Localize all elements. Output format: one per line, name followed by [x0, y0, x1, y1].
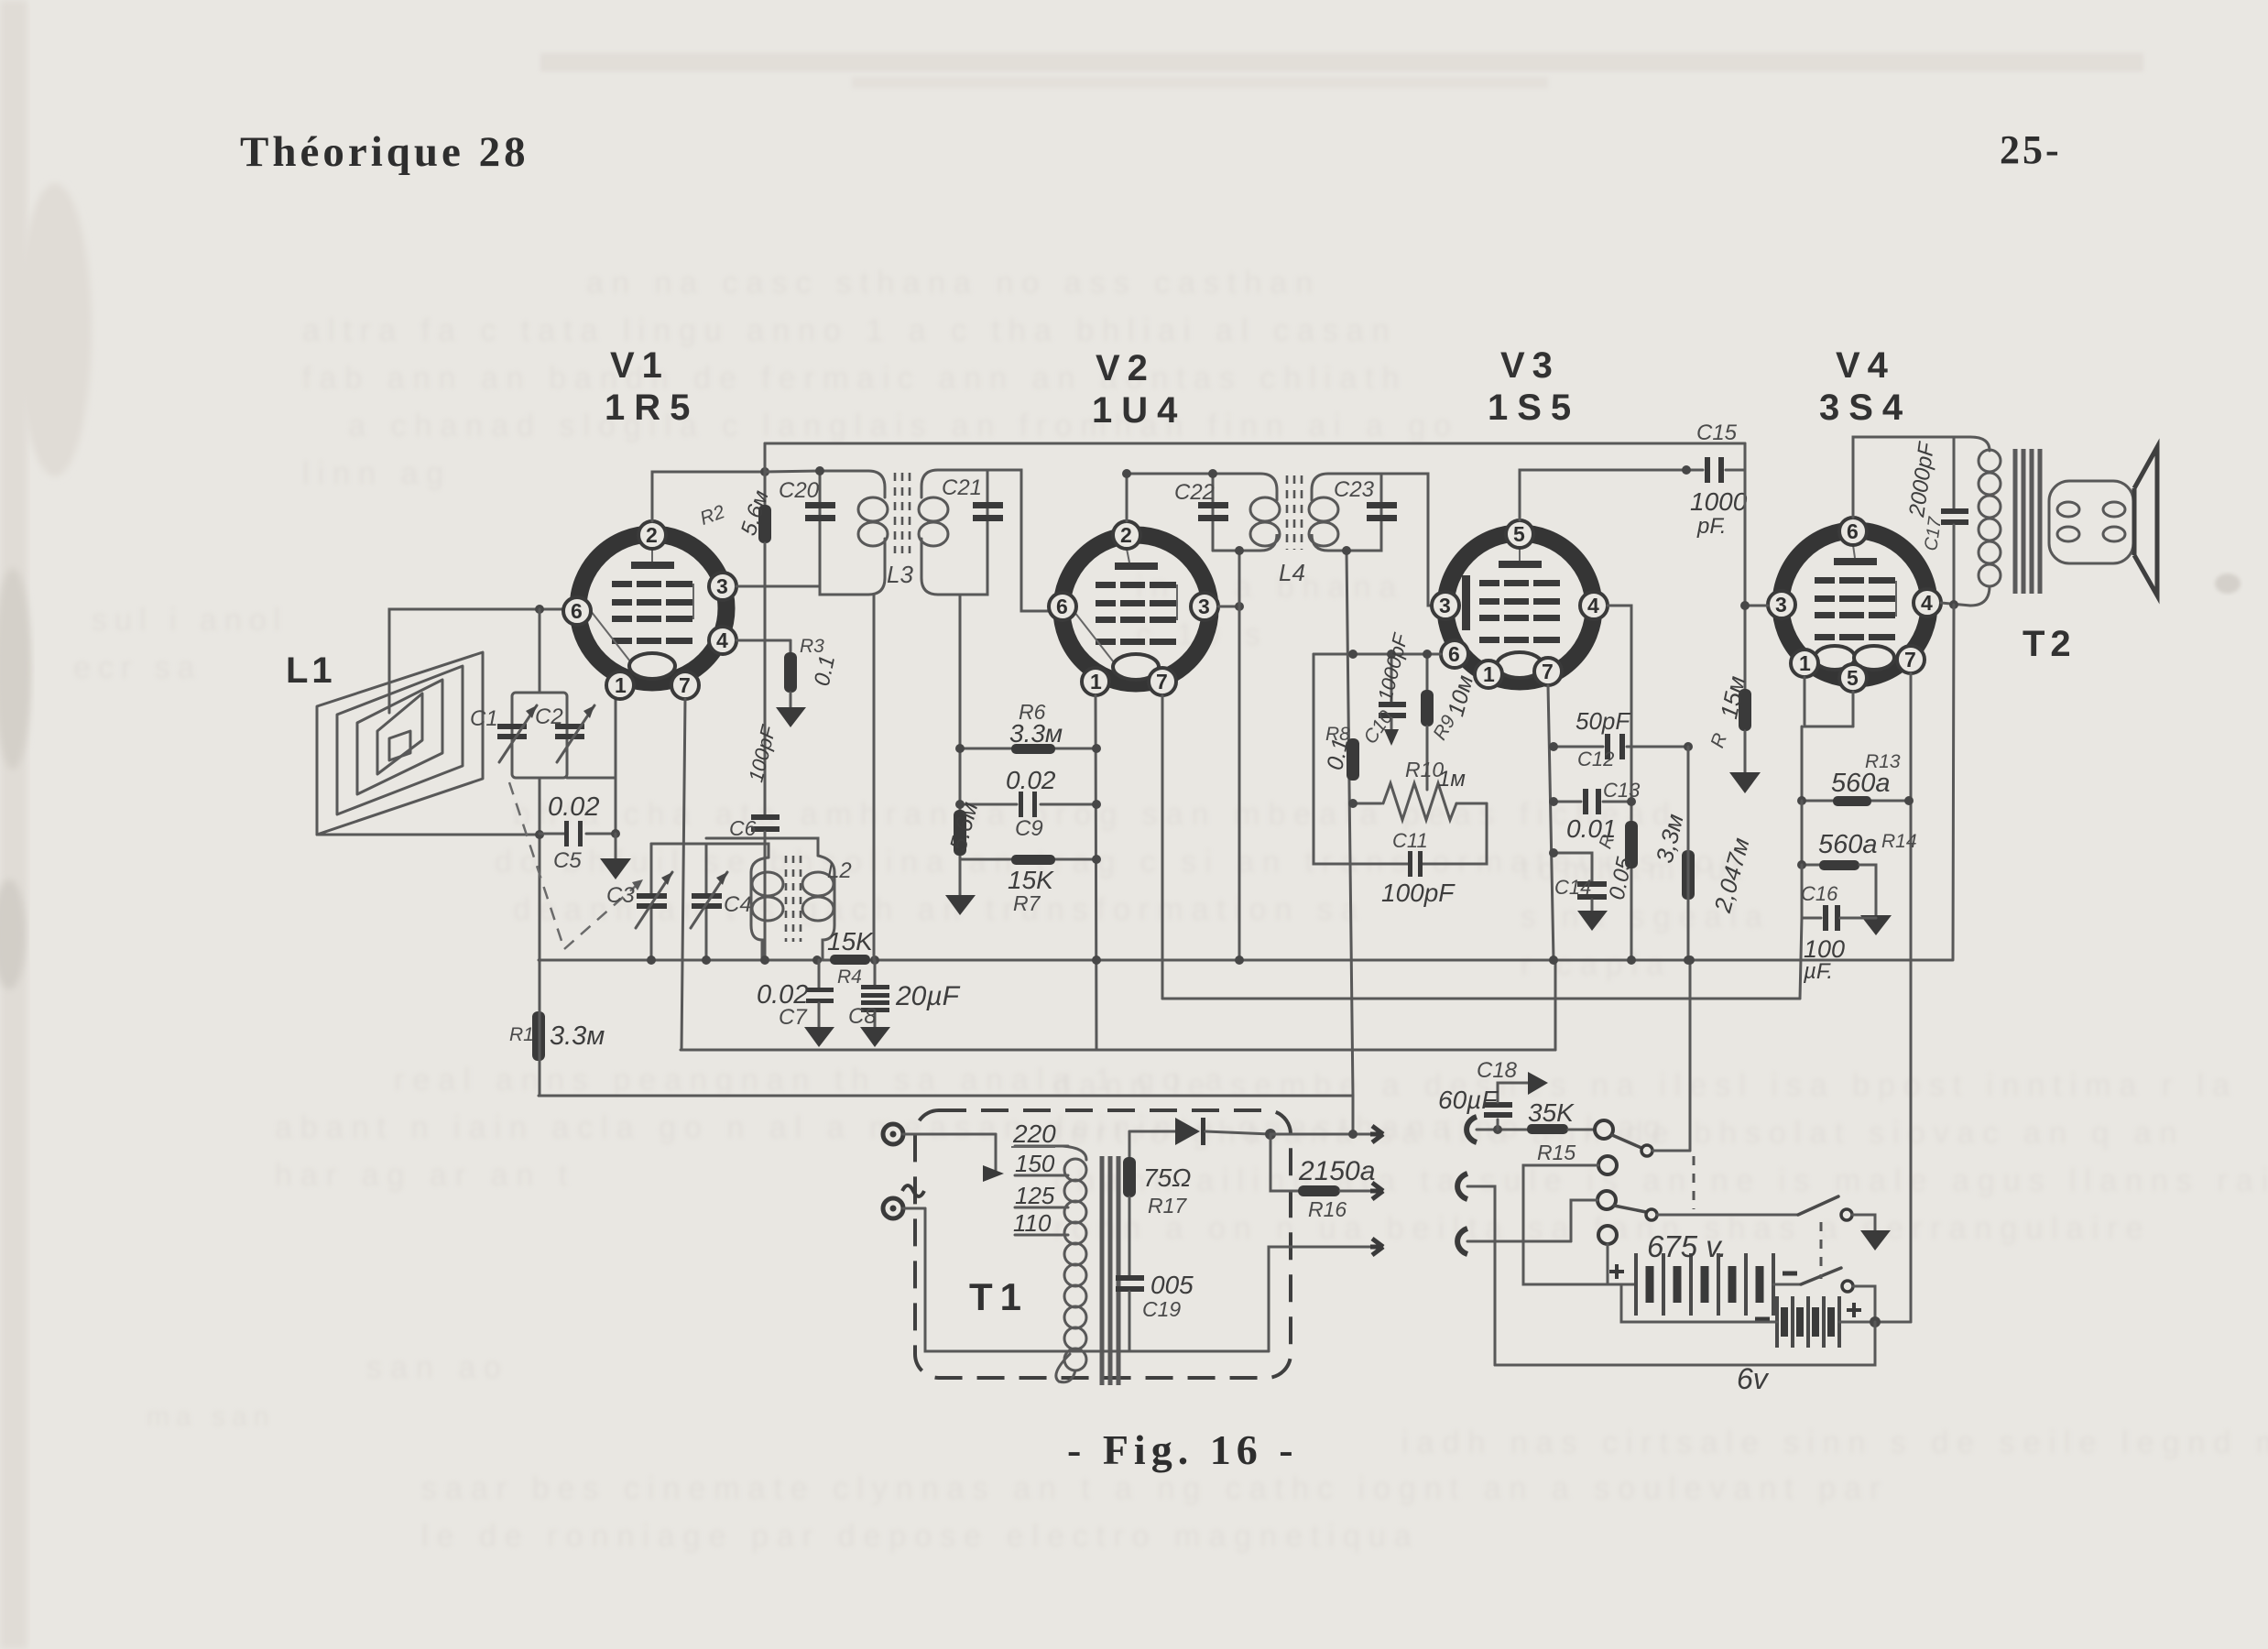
- svg-text:le de ronniage par depose elec: le de ronniage par depose electro magnet…: [421, 1519, 1420, 1554]
- svg-text:3: 3: [1198, 595, 1210, 618]
- svg-text:r capla: r capla: [1521, 947, 1672, 982]
- svg-text:3S4: 3S4: [1819, 388, 1912, 428]
- svg-text:1R5: 1R5: [605, 388, 699, 428]
- capacitor C18 60uF with B+ arrow: [1438, 1058, 1548, 1130]
- capacitor C15 1000pF in B+ line: [1686, 420, 1748, 539]
- pin 3: [1432, 592, 1459, 619]
- primary tap 125: [1015, 1182, 1068, 1209]
- diode rectifier: [1129, 1118, 1270, 1145]
- socket jack B+ input: [1467, 1117, 1477, 1142]
- wire 6V plus to pin7 column: [1839, 1321, 1911, 1324]
- pin 6: [1441, 640, 1468, 668]
- tube V4 (3S4): [1768, 518, 1941, 692]
- resistor R14 560 ohm: [1802, 801, 1917, 915]
- pin 6: [1049, 593, 1076, 620]
- svg-text:C11: C11: [1392, 829, 1428, 852]
- svg-text:R14: R14: [1881, 831, 1917, 852]
- ground symbol switch S3: [1860, 1230, 1891, 1250]
- mechanical link dashes S1: [1693, 1156, 1696, 1209]
- svg-text:linn ag: linn ag: [302, 456, 452, 491]
- plug arrow output 3: [1370, 1239, 1383, 1255]
- socket jack A input low: [1457, 1229, 1467, 1254]
- svg-text:3: 3: [716, 574, 728, 598]
- primary tap 150: [1015, 1150, 1068, 1177]
- svg-text:6: 6: [1448, 642, 1460, 666]
- wire L4 primary bottom to V2 pin3 and bus A: [1238, 551, 1241, 960]
- transformer L3 with C20/C21: [820, 470, 987, 595]
- wire C3/C4 top link to L2: [651, 844, 769, 857]
- wire C1/C2 box bottom to pin1 rail: [567, 777, 616, 780]
- svg-text:C16: C16: [1801, 882, 1838, 905]
- wire vertical joining bus A to bus B at right end x=1698: [1554, 960, 1557, 1050]
- capacitor C6 100pF to bus A: [729, 722, 780, 960]
- svg-text:5: 5: [1847, 666, 1859, 690]
- svg-text:V1: V1: [610, 345, 670, 386]
- ground symbol below R7 ladder: [945, 859, 976, 915]
- wire jack mid down to bottom rail: [1467, 1186, 1495, 1365]
- svg-text:C5: C5: [553, 848, 582, 873]
- node dot (835,515): [760, 467, 769, 476]
- svg-text:110: 110: [1013, 1209, 1052, 1237]
- svg-text:C14: C14: [1554, 876, 1591, 899]
- tube V1 (1R5): [563, 521, 736, 699]
- svg-text:7: 7: [679, 673, 691, 697]
- svg-text:1000: 1000: [1690, 487, 1748, 516]
- svg-text:C15: C15: [1696, 420, 1738, 445]
- svg-text:R17: R17: [1148, 1194, 1187, 1218]
- svg-text:2: 2: [646, 523, 658, 547]
- wire V4 pin7 down to R13 node and 6V supply: [1910, 673, 1913, 1322]
- junction: [1092, 744, 1101, 753]
- wire L4 secondary top to V3 pin3: [1381, 474, 1431, 606]
- junction: [1348, 799, 1358, 808]
- capacitor C13 0.01: [1554, 779, 1641, 843]
- wire V2 pin3 to L4 primary bottom rail: [1218, 606, 1239, 608]
- wire antenna top lead to V1 pin6: [389, 609, 562, 713]
- wire V3 pin4 to coupling column: [1608, 606, 1631, 960]
- wire filament column down to filament line: [1800, 918, 1802, 999]
- resistor R3 0.1M to ground: [776, 636, 840, 727]
- junction: [1342, 546, 1351, 555]
- wire V1 pin3 (plate) to L3 primary: [736, 585, 820, 588]
- wire V4 pin4 plate line to T2 bottom: [1941, 603, 1970, 606]
- node dot at (589,665): [535, 605, 544, 614]
- junction: [955, 800, 965, 809]
- wire secondary bottom rail: [1070, 1350, 1269, 1353]
- pin 7: [1534, 658, 1562, 685]
- wire 67.5V minus to switch S2: [1773, 1283, 1801, 1286]
- node dot (672,910): [611, 829, 620, 838]
- svg-text:1м: 1м: [1438, 767, 1466, 792]
- svg-text:6: 6: [571, 599, 583, 623]
- svg-text:1S5: 1S5: [1488, 388, 1580, 428]
- wire lower jack to primary bottom: [925, 1208, 1070, 1351]
- battery A 6V: [1737, 1296, 1861, 1395]
- pin 1: [606, 672, 634, 699]
- svg-text:1: 1: [1799, 651, 1811, 675]
- transformer L2 (oscillator coil): [706, 838, 852, 960]
- svg-text:675 v.: 675 v.: [1647, 1229, 1727, 1263]
- transformer T1 primary winding: [1056, 1146, 1086, 1382]
- capacitor C20: [779, 478, 835, 521]
- pin 5: [1506, 520, 1533, 548]
- T2 core: [2015, 449, 2040, 594]
- wire contact 4 stem to battery + node: [1607, 1244, 1609, 1284]
- wire jack low to contact-3 riser: [1467, 1240, 1571, 1243]
- svg-text:6v: 6v: [1737, 1362, 1770, 1395]
- primary tap 220: [1011, 1119, 1068, 1148]
- ground symbol below R14: [1860, 915, 1892, 935]
- svg-text:6: 6: [1056, 595, 1068, 618]
- svg-text:R1: R1: [509, 1024, 534, 1045]
- svg-text:C9: C9: [1015, 816, 1043, 841]
- resistor R15 35K: [1527, 1098, 1594, 1164]
- pin 7: [1897, 646, 1925, 673]
- wire jack to R15: [1477, 1129, 1527, 1131]
- svg-text:100pF: 100pF: [1381, 879, 1456, 907]
- junction: [1797, 860, 1806, 869]
- svg-text:C21: C21: [942, 475, 982, 500]
- junction: [1949, 600, 1958, 609]
- svg-text:L2: L2: [827, 858, 852, 883]
- svg-text:T2: T2: [2023, 624, 2077, 664]
- wire L3 secondary bottom down to AVC ladder: [959, 595, 962, 859]
- svg-text:3.3м: 3.3м: [550, 1021, 605, 1051]
- svg-text:L1: L1: [286, 650, 336, 691]
- pin 3: [1768, 591, 1795, 618]
- capacitor C23: [1334, 477, 1397, 521]
- resistor 3.3M grid leak V4: [1596, 811, 1689, 868]
- wire filament line y=1090 V2 to V4: [1162, 998, 1800, 1000]
- capacitor C4 (variable, oscillator): [691, 844, 752, 960]
- junction: [1122, 469, 1131, 478]
- wire L1 bottom lead to left rail: [317, 834, 539, 836]
- svg-text:1: 1: [1483, 662, 1495, 686]
- svg-text:3: 3: [1439, 594, 1451, 617]
- svg-text:chann ailing ata ta sule: chann ailing ata ta sule is an ne is mal…: [1053, 1163, 2268, 1198]
- pin 7: [671, 672, 699, 699]
- resistor R13 560 ohm: [1802, 677, 1909, 806]
- junction: [1348, 1130, 1358, 1139]
- svg-text:C23: C23: [1334, 477, 1375, 502]
- T1 dashed enclosure: [915, 1110, 1291, 1378]
- node dot (589,911): [535, 830, 544, 839]
- wire switch to bus A drop x=1845: [1689, 960, 1692, 1151]
- svg-text:R3: R3: [800, 636, 824, 657]
- capacitor C14 0.05 to ground: [1554, 853, 1638, 931]
- pin 1: [1475, 661, 1502, 688]
- junction: [1685, 956, 1695, 965]
- junction: [1387, 650, 1396, 659]
- svg-text:R4: R4: [837, 966, 862, 988]
- resistor R7 15K: [960, 855, 1096, 915]
- svg-text:Théorique 28: Théorique 28: [240, 128, 529, 176]
- node dot diode output: [1265, 1129, 1276, 1140]
- switch S1 blade 1: [1612, 1135, 1690, 1156]
- wire V2 pin1 down to AVC ladder: [1096, 695, 1096, 1050]
- junction: [1904, 796, 1914, 805]
- svg-text:C13: C13: [1603, 779, 1641, 802]
- svg-text:saar bes cinemate clynnas an t: saar bes cinemate clynnas an t a ng cath…: [421, 1471, 1888, 1506]
- svg-text:R16: R16: [1308, 1197, 1347, 1221]
- svg-text:V4: V4: [1836, 345, 1895, 386]
- svg-text:150: 150: [1015, 1150, 1055, 1177]
- resistor R9 10M: [1421, 654, 1478, 790]
- wire V3 pin7 down to C12/C13/C14 chain: [1548, 685, 1555, 960]
- svg-text:C20: C20: [779, 478, 820, 503]
- node dot (1477,714): [1348, 650, 1358, 659]
- svg-text:L4: L4: [1279, 559, 1305, 586]
- svg-text:7: 7: [1156, 670, 1168, 693]
- node dot (892,1048): [812, 956, 822, 965]
- resistor R17 75 ohm in secondary: [1123, 1131, 1191, 1275]
- pin 4: [1580, 592, 1608, 619]
- capacitor C17 2000pF across T2 primary: [1904, 437, 1968, 605]
- resistor R1 3.3M in left rail: [509, 1011, 605, 1061]
- node dots C3/C4 on bus A: [647, 956, 656, 965]
- switch S1 contact 2: [1598, 1156, 1617, 1174]
- junction: [1549, 742, 1558, 751]
- svg-text:C3: C3: [606, 883, 635, 908]
- capacitor C1 (variable): [470, 705, 537, 762]
- pin 3: [709, 573, 736, 600]
- junction: [1549, 797, 1558, 806]
- svg-text:560a: 560a: [1831, 769, 1891, 798]
- capacitor C22: [1174, 480, 1228, 521]
- capacitor C11 100pF: [1314, 654, 1487, 907]
- pin 3: [1191, 593, 1218, 620]
- svg-text:3.3м: 3.3м: [1009, 719, 1063, 748]
- wire left rail from box bottom down to bus A: [539, 778, 541, 960]
- svg-text:- Fig. 16 -: - Fig. 16 -: [1067, 1426, 1299, 1473]
- wire plate column down to bus A right corner: [1953, 605, 1954, 960]
- wire V1 pin1 rail down to C5 node: [615, 691, 617, 834]
- wire V3 grid line to V4 pin3: [1745, 605, 1768, 607]
- svg-text:iadh nas cirtsale sinn s de s: iadh nas cirtsale sinn s de seile legnd …: [1401, 1425, 2268, 1460]
- wire V3 pin6 to R9 node: [1427, 653, 1441, 656]
- svg-text:15K: 15K: [1008, 866, 1054, 894]
- svg-text:R15: R15: [1537, 1141, 1576, 1164]
- svg-text:75Ω: 75Ω: [1143, 1163, 1191, 1192]
- resistor R8 0.1M in AVC line: [1322, 724, 1359, 781]
- junction: [1740, 601, 1750, 610]
- svg-text:an na casc sthana no ass casth: an na casc sthana no ass casthan: [586, 266, 1321, 300]
- T2 secondary: [2049, 481, 2133, 563]
- junction: [1627, 956, 1636, 965]
- wire bus C corner down to diode node: [1352, 1096, 1355, 1134]
- svg-text:2: 2: [1120, 523, 1132, 547]
- resistor R2 5.6M from B+ bus: [697, 443, 774, 814]
- svg-text:5: 5: [1513, 522, 1525, 546]
- primary tap 110: [1013, 1209, 1068, 1237]
- junction: [1870, 1316, 1881, 1327]
- pin 1: [1082, 668, 1109, 695]
- svg-text:7: 7: [1904, 648, 1916, 672]
- svg-text:0.02: 0.02: [1006, 766, 1056, 794]
- socket jack A input mid: [1457, 1174, 1467, 1199]
- wire V1 pin4 to R3: [736, 639, 791, 642]
- switch S3 (A switch upper): [1798, 1196, 1875, 1230]
- svg-text:2150a: 2150a: [1298, 1156, 1375, 1186]
- pin 2: [1113, 521, 1140, 549]
- svg-text:har ag ar an t: har ag ar an t: [275, 1158, 575, 1193]
- svg-text:C19: C19: [1142, 1297, 1181, 1321]
- svg-text:005: 005: [1150, 1271, 1194, 1299]
- pin 5: [1839, 664, 1867, 692]
- svg-text:san ao: san ao: [366, 1350, 509, 1385]
- svg-text:60µF: 60µF: [1438, 1086, 1499, 1114]
- svg-text:T1: T1: [969, 1275, 1029, 1318]
- capacitor C3 (variable, oscillator): [606, 844, 672, 960]
- resistor R11 2,047M: [1682, 835, 1755, 916]
- svg-text:a chanad slogila c langlais an: a chanad slogila c langlais an fromhan f…: [348, 409, 1459, 443]
- wire V3 pin5 riser to C15 line: [1520, 470, 1686, 520]
- tube V3 (1S5): [1432, 520, 1608, 688]
- wire bottom return rail: [1495, 1322, 1875, 1365]
- switch S2 (B switch): [1801, 1268, 1875, 1322]
- svg-text:ma san: ma san: [147, 1402, 275, 1432]
- battery B 67.5V: [1609, 1229, 1797, 1316]
- junction: [1092, 956, 1101, 965]
- svg-text:µF.: µF.: [1803, 959, 1833, 984]
- wire V1 pin7 filament rail down to bus B: [681, 699, 685, 1050]
- junction: [1549, 956, 1558, 965]
- junction: [1235, 546, 1244, 555]
- tube V2 (1U4): [1049, 521, 1218, 695]
- capacitor C16 100uF: [1801, 865, 1876, 984]
- transformer L4 with C22/C23: [1182, 474, 1381, 586]
- capacitor C19 005: [1116, 1271, 1194, 1351]
- wire V1 pin2 riser to screen line: [652, 472, 765, 521]
- svg-text:4: 4: [716, 628, 728, 652]
- capacitor C5 0.02 in series: [540, 792, 616, 873]
- capacitor C21: [942, 475, 1003, 521]
- T1 core: [1102, 1156, 1118, 1385]
- svg-text:6: 6: [1847, 519, 1859, 543]
- svg-text:1: 1: [615, 673, 627, 697]
- wire L3 primary bottom down to bus A (C8 node): [873, 595, 876, 960]
- svg-text:sul i anol: sul i anol: [92, 603, 288, 638]
- capacitor C12 50pF: [1554, 707, 1688, 770]
- svg-text:C6: C6: [729, 816, 757, 840]
- pin 1: [1791, 650, 1818, 677]
- svg-text:4: 4: [1921, 591, 1933, 615]
- resistor R5 5.6M vertical: [943, 799, 983, 856]
- wire 6V minus link under B battery: [1621, 1284, 1777, 1322]
- node dot (1353,662): [1235, 602, 1244, 611]
- junction: [1684, 956, 1693, 965]
- capacitor C2 (variable): [535, 704, 594, 762]
- svg-text:altra fa c tata lingu anno 1 a: altra fa c tata lingu anno 1 a c tha bhl…: [302, 313, 1398, 348]
- svg-text:15K: 15K: [827, 927, 874, 956]
- node dot (1324,517): [1208, 469, 1217, 478]
- pin 4: [709, 627, 736, 654]
- AC symbol: [902, 1185, 924, 1196]
- node dot (895,514) top of C20: [815, 466, 824, 475]
- wire L3 secondary top to V2 pin6: [987, 470, 1050, 611]
- svg-text:L3: L3: [887, 561, 913, 588]
- dashed gang line C1/C2 to C3/C4: [509, 782, 643, 949]
- mechanical link dashes S2/S3: [1820, 1222, 1823, 1279]
- resistor R4 15K in bus A: [827, 927, 874, 988]
- wire left rail bottom corner into bus C: [539, 960, 541, 1096]
- junction: [1549, 848, 1558, 857]
- capacitor C9 0.02: [960, 766, 1096, 841]
- wire B+ output to plug arrow 1: [1270, 1133, 1370, 1136]
- svg-text:V3: V3: [1500, 345, 1560, 386]
- junction: [955, 744, 965, 753]
- switch S1 blade 3: [1614, 1206, 1798, 1220]
- switch S1 contact 3: [1597, 1191, 1616, 1209]
- svg-text:1: 1: [1090, 670, 1102, 693]
- svg-text:0.02: 0.02: [548, 792, 599, 822]
- potentiometer R10 1M (volume): [1353, 758, 1487, 820]
- svg-text:V2: V2: [1096, 348, 1155, 388]
- junction: [1627, 797, 1636, 806]
- paper shading left edge: [0, 0, 27, 1649]
- plug arrow output 1: [1370, 1126, 1383, 1142]
- plug arrow output 2: [1370, 1183, 1383, 1199]
- wire V4 pin6 riser to T2 primary top: [1853, 437, 1970, 518]
- switch S1 contact 4: [1598, 1226, 1617, 1244]
- switch S1 contact 1: [1595, 1120, 1613, 1139]
- svg-text:125: 125: [1015, 1182, 1055, 1209]
- mains jack upper: [883, 1124, 996, 1144]
- wire bus A (B- return) y=1048: [539, 959, 1952, 962]
- pin 6: [1839, 518, 1867, 545]
- pin 2: [638, 521, 666, 549]
- wire contact 2 loop to 67.5V +: [1523, 1165, 1634, 1284]
- wire B+ top bus y=484: [765, 442, 1745, 445]
- junction: [1092, 855, 1101, 864]
- junction: [760, 956, 769, 965]
- svg-text:35K: 35K: [1528, 1098, 1575, 1127]
- speaker: [2134, 447, 2157, 595]
- svg-text:C2: C2: [535, 704, 563, 729]
- resistor R16 2150 ohm output: [1270, 1134, 1375, 1221]
- node dot (955,1048): [870, 956, 879, 965]
- svg-text:C22: C22: [1174, 480, 1215, 505]
- node dot C18 tap: [1493, 1125, 1502, 1134]
- wire V2 pin7 down to filament line: [1161, 695, 1164, 999]
- junction: [1682, 465, 1691, 475]
- svg-text:560a: 560a: [1818, 830, 1878, 859]
- capacitor C7 0.02 to ground: [757, 960, 834, 1047]
- svg-text:20µF: 20µF: [895, 981, 961, 1011]
- junction: [1092, 800, 1101, 809]
- mains selector arrow: [983, 1134, 1004, 1182]
- svg-text:C18: C18: [1477, 1058, 1518, 1083]
- wire bus B y=1146 from V1 filament down-rail: [681, 1049, 1555, 1052]
- junction: [1235, 956, 1244, 965]
- svg-text:R7: R7: [1013, 891, 1041, 915]
- svg-text:C1: C1: [470, 706, 498, 731]
- svg-text:C12: C12: [1577, 748, 1614, 770]
- junction: [1797, 796, 1806, 805]
- wire jack2/3 feed to contact 3: [1571, 1200, 1597, 1241]
- svg-text:220: 220: [1012, 1119, 1056, 1148]
- svg-text:50pF: 50pF: [1576, 707, 1631, 735]
- L1 loop antenna: [317, 652, 483, 835]
- svg-text:3: 3: [1775, 593, 1787, 617]
- svg-text:dann le sembe a deshes na: dann le sembe a deshes na ilesl isa bpos…: [1053, 1068, 2238, 1103]
- svg-text:4: 4: [1587, 594, 1599, 617]
- transformer T2 (output) primary winding: [1970, 437, 2133, 606]
- wire screen line to L3 primary top: [765, 471, 820, 472]
- pin 4: [1914, 589, 1941, 617]
- svg-text:1U4: 1U4: [1092, 390, 1186, 431]
- capacitor C10 1000pF: [1314, 630, 1440, 748]
